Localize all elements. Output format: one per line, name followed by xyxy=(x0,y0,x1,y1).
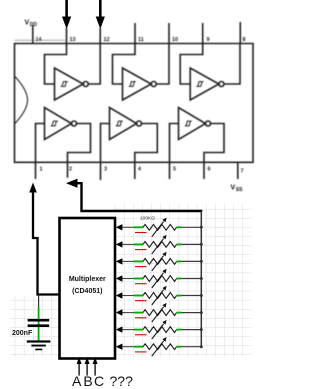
potentiometer R6 row xyxy=(116,303,203,322)
pin 12 lead xyxy=(99,28,101,44)
pin 10 lead xyxy=(168,23,170,44)
inverter U1D output wire (wrap to pin2) xyxy=(68,124,91,163)
inverter U1C bubble xyxy=(219,82,224,87)
svg-text:9: 9 xyxy=(207,37,210,43)
inverter U1F triangle xyxy=(179,108,206,140)
potentiometer R2 row xyxy=(116,235,203,254)
svg-text:SS: SS xyxy=(236,187,243,193)
pin 7 lead xyxy=(237,162,239,179)
VDD rail ghost line xyxy=(15,39,68,41)
pin 3 lead xyxy=(100,162,102,180)
pin 8 lead xyxy=(239,22,241,44)
svg-text:C: C xyxy=(94,373,104,389)
inverter U1A triangle xyxy=(55,68,84,100)
capacitor C1 lower lead xyxy=(38,327,40,341)
inverter U1C input wire (pin9 to gate C) xyxy=(180,44,203,85)
potentiometer R1 row xyxy=(116,218,203,237)
node C arrow xyxy=(93,357,98,376)
potentiometer R3 row xyxy=(116,252,203,271)
potentiometer rows xyxy=(116,218,203,357)
wire arrow into pin 13 xyxy=(62,0,71,29)
package notch xyxy=(15,76,28,124)
inverter U1B triangle xyxy=(123,68,152,100)
pin number labels xyxy=(36,37,246,175)
pin 9 lead xyxy=(202,23,204,44)
svg-text:100KΩ: 100KΩ xyxy=(140,216,155,222)
potentiometer R4 row xyxy=(116,269,203,288)
svg-text:5: 5 xyxy=(173,167,176,173)
svg-text:???: ??? xyxy=(110,373,134,389)
node VSS label xyxy=(231,185,244,194)
inverter U1F bubble xyxy=(206,121,211,126)
pin 2 lead xyxy=(67,162,69,177)
inverter U1A hysteresis glyph xyxy=(61,82,68,87)
potentiometer R7 row xyxy=(116,320,203,339)
inverter U1F input wire (pin5 to gate F) xyxy=(170,124,179,163)
svg-text:A: A xyxy=(72,373,82,389)
ground xyxy=(27,340,51,350)
inverter U1D input wire (pin1 to gate D) xyxy=(36,124,45,163)
inverter U1E hysteresis glyph xyxy=(116,121,123,126)
potentiometer R8 row xyxy=(116,337,203,356)
grid background (schematic capture area, right) xyxy=(113,204,251,357)
svg-text:V: V xyxy=(231,185,236,192)
IC package outline xyxy=(15,44,254,163)
svg-text:6: 6 xyxy=(208,167,211,173)
inverter U1B bubble xyxy=(151,82,156,87)
pin 13 lead xyxy=(66,28,68,44)
svg-text:1: 1 xyxy=(40,167,43,173)
inverter U1F hysteresis glyph xyxy=(185,121,192,126)
capacitor C1 plates xyxy=(38,322,40,325)
inverter U1D triangle xyxy=(45,108,72,140)
inverter U1A bubble xyxy=(83,82,88,87)
svg-text:10: 10 xyxy=(172,37,178,43)
capacitor C1 lead from wire junction xyxy=(38,296,40,309)
inverter U1E input wire (pin3 to gate E) xyxy=(101,124,110,163)
inverter U1D hysteresis glyph xyxy=(51,121,58,126)
pin 1 lead xyxy=(35,162,37,179)
wire arrow into pin 12 xyxy=(96,0,105,29)
svg-text:8: 8 xyxy=(243,37,246,43)
node A arrow xyxy=(77,357,82,376)
svg-text:14: 14 xyxy=(36,37,43,43)
inverter U1A output wire (to pin12) xyxy=(88,44,100,85)
svg-text:7: 7 xyxy=(241,169,244,175)
svg-text:Multiplexer: Multiplexer xyxy=(69,276,106,283)
svg-text:3: 3 xyxy=(104,167,107,173)
svg-text:200nF: 200nF xyxy=(12,330,33,337)
pin 5 lead xyxy=(169,162,171,179)
inverter U1E output wire (wrap to pin4) xyxy=(135,124,158,163)
inverter U1A input wire (pin13 to gate A) xyxy=(45,44,67,85)
node VDD label xyxy=(25,20,38,29)
svg-text:DD: DD xyxy=(30,22,38,28)
svg-text:B: B xyxy=(83,373,92,389)
multiplexer U2 (CD4051) box xyxy=(60,218,116,359)
inverter U1C hysteresis glyph xyxy=(196,82,203,87)
right bus vertical wire xyxy=(200,211,202,347)
pin 14 lead xyxy=(32,26,34,44)
pin 6 lead xyxy=(203,162,205,179)
inverter U1C output wire (to pin8) xyxy=(224,44,240,85)
svg-text:12: 12 xyxy=(104,37,110,43)
wire from multiplexer common up to pin 1 (arrow up) xyxy=(29,183,59,295)
potentiometer R5 row xyxy=(116,286,203,305)
inverter U1B input wire (pin11 to gate B) xyxy=(113,44,136,85)
inverter U1B output wire (to pin10) xyxy=(156,44,169,85)
svg-text:13: 13 xyxy=(70,37,76,43)
node B arrow xyxy=(85,357,90,376)
inverter U1E bubble xyxy=(137,121,142,126)
inverter U1D bubble xyxy=(72,121,77,126)
wire from pin 2 down to resistor rail (arrow at pin 2) xyxy=(66,179,202,211)
inverter U1B hysteresis glyph xyxy=(129,82,136,87)
inverter U1F output wire (wrap to pin6) xyxy=(204,124,224,163)
svg-text:11: 11 xyxy=(138,37,144,43)
svg-text:2: 2 xyxy=(69,167,72,173)
pin 11 lead xyxy=(134,23,136,44)
svg-text:V: V xyxy=(25,20,30,27)
inverter U1E triangle xyxy=(110,108,137,140)
grid background (capacitor area, bottom-left) xyxy=(10,296,60,357)
pin 4 lead xyxy=(134,162,136,179)
svg-text:(CD4051): (CD4051) xyxy=(72,288,102,295)
inverter U1C triangle xyxy=(190,68,219,100)
